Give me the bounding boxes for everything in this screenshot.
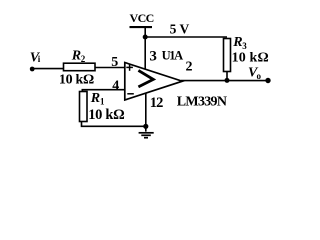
svg-text:3: 3 — [149, 49, 157, 65]
svg-text:3: 3 — [242, 41, 247, 51]
svg-text:2: 2 — [81, 54, 86, 64]
svg-text:VCC: VCC — [130, 11, 154, 25]
svg-text:i: i — [38, 54, 41, 64]
svg-text:o: o — [257, 71, 262, 81]
svg-text:12: 12 — [150, 95, 163, 111]
svg-text:2: 2 — [186, 60, 193, 75]
svg-text:5 V: 5 V — [170, 22, 190, 37]
svg-text:R: R — [71, 49, 81, 64]
svg-text:10 kΩ: 10 kΩ — [88, 107, 124, 123]
svg-text:5: 5 — [111, 55, 118, 70]
svg-text:R: R — [232, 35, 242, 50]
svg-text:U1A: U1A — [162, 48, 183, 62]
svg-text:10 kΩ: 10 kΩ — [232, 51, 269, 66]
svg-text:1: 1 — [100, 96, 105, 106]
svg-text:10 kΩ: 10 kΩ — [59, 73, 94, 88]
svg-text:LM339N: LM339N — [177, 95, 227, 110]
svg-text:R: R — [90, 91, 100, 106]
svg-text:4: 4 — [112, 78, 119, 93]
